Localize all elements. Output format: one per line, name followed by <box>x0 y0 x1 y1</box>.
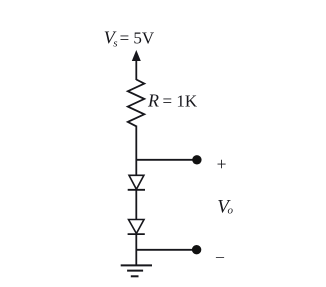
resistor R <box>128 80 145 127</box>
diode D2 <box>128 220 145 235</box>
svg-text:–: – <box>215 248 225 265</box>
svg-text:R: R <box>147 91 159 111</box>
wire D1 to D2 <box>135 190 137 220</box>
wire resistor to node A <box>135 126 137 177</box>
svg-text:= 1K: = 1K <box>163 92 198 111</box>
terminal + (filled circle) <box>192 155 201 164</box>
svg-text:s: s <box>113 38 117 50</box>
svg-text:+: + <box>217 154 227 174</box>
diode D1 <box>128 175 145 190</box>
label Vs = 5V <box>104 28 155 50</box>
wire D2 to ground <box>135 234 137 265</box>
ground <box>121 265 152 276</box>
svg-text:o: o <box>228 205 234 217</box>
terminal - (filled circle) <box>192 245 201 254</box>
label R = 1K <box>147 91 198 111</box>
supply arrow Vs <box>132 50 141 80</box>
wire node B to - terminal <box>136 249 193 251</box>
label Vo <box>217 196 233 217</box>
wire node A to + terminal <box>136 159 193 161</box>
svg-text:= 5V: = 5V <box>120 29 155 48</box>
